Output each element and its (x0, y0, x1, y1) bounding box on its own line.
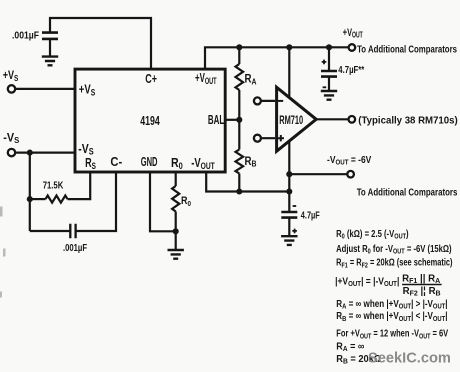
svg-text:(Typically 38 RM710s): (Typically 38 RM710s) (358, 115, 457, 126)
svg-text:-VOUT = -6V: -VOUT = -6V (327, 154, 372, 167)
svg-text:.001µF: .001µF (63, 242, 87, 253)
svg-text:To Additional Comparators: To Additional Comparators (357, 186, 458, 197)
svg-text:For +VOUT = 12 when -VOUT = 6V: For +VOUT = 12 when -VOUT = 6V (336, 327, 448, 340)
svg-text:RF1 = RF2 = 20kΩ (see schemati: RF1 = RF2 = 20kΩ (see schematic) (336, 256, 452, 269)
svg-text:RA = ∞ when |+VOUT| > |-VOUT|: RA = ∞ when |+VOUT| > |-VOUT| (336, 298, 447, 311)
svg-text:RF2 |¦ RB: RF2 |¦ RB (403, 286, 441, 298)
svg-text:GND: GND (141, 155, 158, 170)
svg-text:SeekIC.com: SeekIC.com (368, 349, 451, 366)
svg-text:To Additional Comparators: To Additional Comparators (357, 43, 457, 54)
svg-text:4.7µF: 4.7µF (301, 209, 320, 220)
svg-text:71.5K: 71.5K (43, 180, 64, 191)
svg-text:RA = ∞: RA = ∞ (336, 341, 364, 353)
svg-text:4.7µF**: 4.7µF** (338, 64, 364, 75)
svg-text:C-: C- (110, 154, 122, 169)
svg-text:RB = ∞ when |+VOUT| < |-VOUT|: RB = ∞ when |+VOUT| < |-VOUT| (336, 310, 447, 323)
svg-text:4194: 4194 (140, 114, 160, 128)
svg-text:C+: C+ (145, 73, 157, 87)
svg-text:RM710: RM710 (279, 114, 303, 127)
svg-text:.001µF: .001µF (12, 30, 39, 42)
svg-text:BAL: BAL (208, 113, 225, 127)
